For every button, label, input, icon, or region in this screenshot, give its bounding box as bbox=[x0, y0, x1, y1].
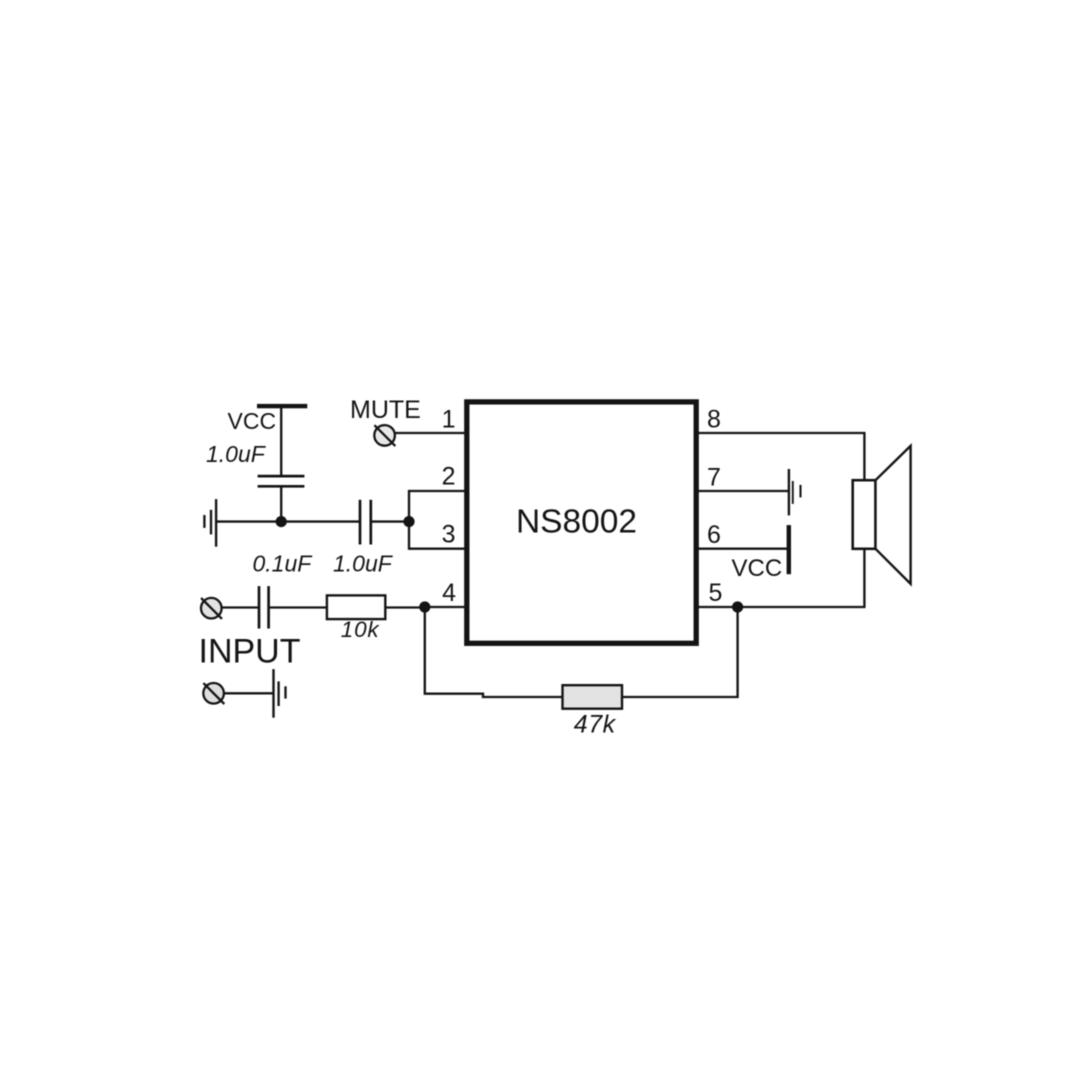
svg-text:10k: 10k bbox=[341, 617, 381, 642]
wire VCC rail down through C1 to node A bbox=[280, 406, 282, 476]
power rail VCC bar (top left) bbox=[257, 404, 307, 408]
wire pin2 stub bbox=[409, 490, 465, 492]
speaker LS1 driver body bbox=[853, 480, 876, 549]
terminal MUTE (circle with slash) bbox=[374, 425, 395, 446]
IC U1 NS8002 body bbox=[467, 402, 696, 643]
power rail VCC bar (pin 6, vertical) bbox=[787, 525, 791, 574]
svg-text:5: 5 bbox=[709, 579, 723, 607]
node pin4 junction dot bbox=[419, 601, 430, 612]
svg-text:0.1uF: 0.1uF bbox=[253, 550, 314, 576]
wire pin4 stub bbox=[425, 606, 465, 608]
wire lower INPUT terminal to ground bbox=[224, 692, 273, 694]
svg-text:1.0uF: 1.0uF bbox=[206, 441, 267, 467]
svg-text:3: 3 bbox=[442, 520, 456, 548]
svg-text:8: 8 bbox=[707, 406, 721, 434]
svg-text:1.0uF: 1.0uF bbox=[333, 550, 394, 576]
wire R1 to pin4 node bbox=[385, 606, 425, 608]
resistor R1 10k bbox=[327, 595, 385, 619]
wire ground rail (left) through node A to C2 bbox=[216, 520, 360, 522]
wire C2 to node B bbox=[371, 520, 410, 522]
svg-text:MUTE: MUTE bbox=[350, 396, 421, 424]
svg-text:VCC: VCC bbox=[732, 555, 783, 582]
svg-text:4: 4 bbox=[442, 579, 456, 607]
capacitor C3 plates (input coupling) bbox=[259, 586, 269, 628]
wire feedback from pin4 node down and right bbox=[425, 607, 563, 697]
svg-text:INPUT: INPUT bbox=[199, 633, 301, 671]
svg-text:47k: 47k bbox=[574, 711, 617, 739]
wire pin6 stub to VCC bar bbox=[698, 548, 788, 550]
capacitor C1 1.0uF plates bbox=[258, 476, 305, 486]
speaker LS1 cone bbox=[876, 446, 911, 584]
wire pin1 stub (MUTE to pin 1) bbox=[395, 432, 465, 434]
resistor R2 47k bbox=[563, 685, 623, 709]
terminal INPUT upper (circle with slash) bbox=[201, 598, 222, 619]
svg-text:VCC: VCC bbox=[228, 408, 277, 434]
ground (pin 7) bbox=[789, 469, 801, 515]
wire INPUT terminal to C3 bbox=[222, 606, 260, 608]
svg-text:NS8002: NS8002 bbox=[516, 504, 637, 541]
wire pin7 stub to ground bbox=[698, 490, 789, 492]
wire pin3 stub bbox=[409, 548, 465, 550]
svg-text:6: 6 bbox=[707, 521, 721, 549]
node A junction dot bbox=[276, 516, 287, 527]
svg-text:2: 2 bbox=[442, 463, 456, 491]
ground (input lower) bbox=[274, 669, 286, 718]
wire feedback from R2 up to pin5 node bbox=[622, 607, 738, 697]
node B junction dot bbox=[403, 516, 414, 527]
wire C3 to resistor R1 bbox=[269, 606, 328, 608]
terminal INPUT lower (circle with slash) bbox=[203, 683, 224, 704]
capacitor C2 plates (series on rail) bbox=[360, 500, 371, 545]
ground (left rail) bbox=[204, 499, 216, 547]
wire bracket vertical joining pins 2 and 3 bbox=[408, 490, 410, 550]
svg-text:7: 7 bbox=[707, 464, 721, 492]
svg-text:1: 1 bbox=[442, 406, 456, 434]
node pin5 junction dot bbox=[732, 601, 743, 612]
wire pin8 to speaker top bbox=[698, 433, 864, 481]
wire pin5 to speaker bottom bbox=[698, 548, 864, 607]
